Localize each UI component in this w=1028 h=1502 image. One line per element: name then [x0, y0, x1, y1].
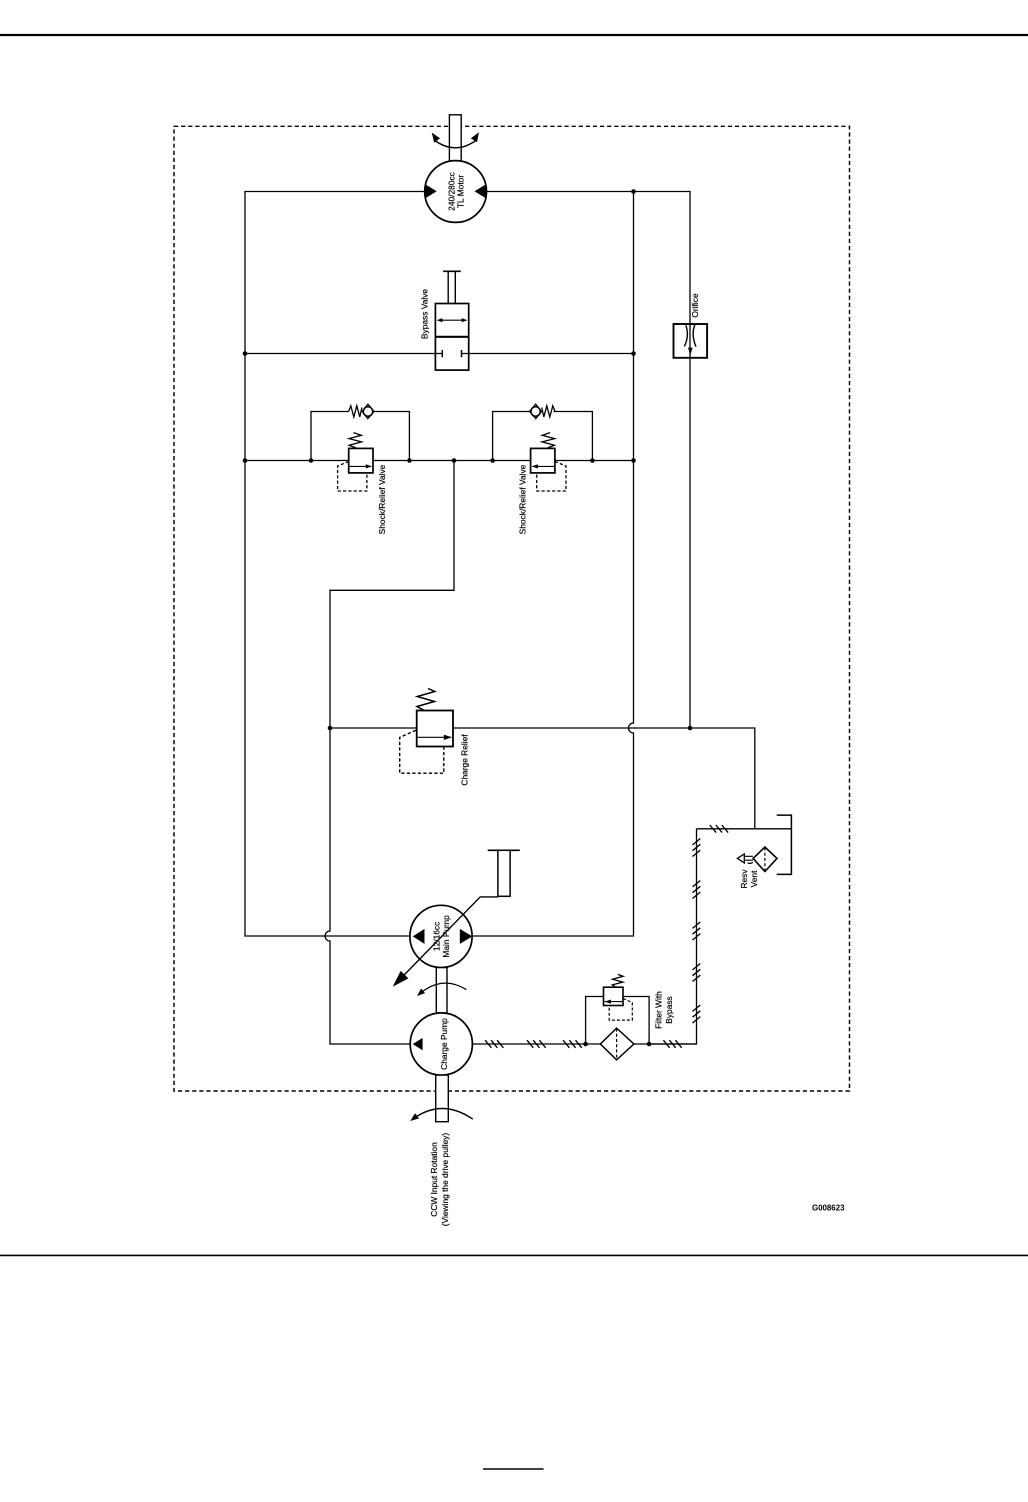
bypass valve V1 body — [435, 304, 468, 371]
pump shaft rotation arrowhead — [417, 989, 425, 997]
dashed system boundary box — [174, 126, 850, 1091]
bypass valve V1 blocked port stubs and ticks — [435, 353, 468, 355]
motor M1 left port flow triangle — [425, 184, 437, 198]
hose hash marks group 3 on charge outlet — [563, 1040, 582, 1048]
main pump P1 servo piston body — [498, 850, 510, 896]
main pump P1 label — [432, 915, 451, 958]
shock/relief valve RV1 flow arrow — [349, 465, 371, 467]
main pump P1 left port flow triangle — [413, 929, 425, 944]
shock/relief valve RV1 (left) check valve spring — [349, 406, 362, 417]
bypass valve V1 cell divider — [435, 336, 468, 338]
shock/relief valve RV2 body — [531, 448, 555, 473]
motor M1 rotation arrowhead left — [432, 133, 440, 143]
input shaft rotation arrow arc — [412, 1108, 473, 1119]
reservoir vent B1 filter diamond — [753, 847, 777, 872]
pump shaft rotation arrow arc — [419, 983, 467, 994]
reservoir vent B1 breather triangle — [737, 854, 744, 863]
wire: shock/relief line y=460.5 — [245, 460, 634, 462]
input rotation label — [429, 1133, 450, 1227]
page bottom rule — [0, 1254, 1028, 1256]
wire: right shock valve bypass loop — [493, 412, 593, 461]
reservoir vent B1 label — [739, 869, 759, 889]
main pump P1 servo piston cap — [488, 849, 520, 851]
svg-text:Charge Relief: Charge Relief — [459, 734, 469, 786]
filter bypass relief valve RV4 pilot dashed line — [609, 999, 632, 1021]
svg-text:(Viewing the drive pulley): (Viewing the drive pulley) — [440, 1133, 450, 1227]
motor M1 rotation arrow arc — [434, 139, 478, 147]
svg-text:Orifice: Orifice — [690, 293, 700, 318]
shock/relief valve RV2 (right) check valve spring — [542, 406, 555, 417]
svg-text:Resv: Resv — [739, 869, 749, 889]
bypass valve V1 plunger cap — [443, 270, 461, 272]
svg-text:Charge Pump: Charge Pump — [439, 1018, 449, 1070]
wire: net B motor right port to orifice branch (x=690 riser) — [486, 192, 690, 729]
wire: net B branch x=633.5 riser with hop over charge-relief line — [472, 192, 633, 937]
bypass valve V1 open-position double arrow — [438, 319, 467, 321]
main pump P1 swash control arm — [399, 897, 498, 980]
shock/relief valve RV1 check valve seat diamond — [362, 404, 374, 418]
wire: center tap to charge circuit (x=330 riser with hop over pump line) — [325, 461, 454, 1045]
main pump P1 right port flow triangle — [460, 929, 473, 944]
junction dots — [243, 189, 693, 1046]
charge relief valve RV3 pilot dashed line — [400, 730, 444, 773]
hose hash marks on reservoir return line — [710, 825, 728, 833]
svg-text:Vent: Vent — [749, 870, 759, 887]
page top rule — [0, 34, 1028, 36]
wire: charge relief line y=728 and drop to reservoir return — [330, 728, 755, 829]
shock/relief valve RV2 flow arrow — [532, 465, 554, 467]
orifice O1 box — [674, 324, 708, 358]
svg-text:G008623: G008623 — [812, 1204, 845, 1213]
charge pump P2 body circle — [410, 1013, 472, 1075]
charge relief valve RV3 flow arrow — [418, 736, 452, 738]
filter F1 element dashed line — [616, 1029, 618, 1060]
shock/relief valve RV2 check valve ball — [531, 407, 540, 416]
hose hash marks group 4 after filter — [663, 1040, 681, 1048]
shock/relief valve RV2 check valve seat diamond — [530, 404, 542, 418]
pump drive shaft between P1 and P2 — [436, 968, 447, 1013]
input shaft rotation arrowhead — [410, 1113, 419, 1121]
orifice O1 flow arrowhead — [688, 348, 693, 356]
shock/relief valve RV1 body — [349, 448, 373, 473]
hydraulic motor M1 240/280cc TL Motor: shaft — [449, 115, 461, 161]
svg-text:Shock/Relief Valve: Shock/Relief Valve — [377, 464, 387, 534]
reservoir vent B1 element dashed line — [764, 848, 766, 871]
footer short rule — [483, 1468, 544, 1470]
wire: suction riser x=696.5 to filter outlet — [649, 829, 696, 1044]
motor M1 rotation arrowhead right — [471, 132, 479, 142]
main pump P1 body circle — [410, 905, 472, 967]
wire: filter bypass loop — [586, 997, 650, 1045]
orifice O1 venturi curves — [684, 325, 696, 347]
wire: net A motor left port to main pump left port (x=245 riser) — [245, 192, 425, 937]
hose hash marks on suction riser (5 groups) — [693, 839, 701, 1024]
motor M1 right port flow triangle — [475, 184, 487, 198]
svg-text:Filter With: Filter With — [654, 991, 664, 1029]
svg-text:Bypass Valve: Bypass Valve — [420, 289, 430, 339]
reservoir vent B1 breather bars — [745, 856, 753, 863]
hose hash marks group 2 on charge outlet — [527, 1040, 546, 1048]
filter bypass relief valve RV4 flow arrow — [605, 1001, 623, 1003]
wire: charge pump outlet through filter junctions — [473, 1043, 697, 1045]
svg-text:Bypass: Bypass — [664, 996, 674, 1023]
svg-text:Main Pump: Main Pump — [441, 915, 451, 958]
filter F1 diamond — [600, 1028, 634, 1060]
bypass valve V1 plunger stem — [448, 271, 455, 303]
reservoir T1 tank bracket — [777, 815, 792, 874]
wire: reservoir return line y=828.8 into tank — [697, 828, 792, 830]
charge pump P2 outlet flow triangle — [413, 1038, 423, 1050]
motor M1 body circle — [425, 161, 487, 223]
svg-text:TL Motor: TL Motor — [456, 175, 466, 208]
hose hash marks group 1 on charge outlet — [485, 1040, 503, 1048]
filter label — [654, 991, 674, 1029]
filter bypass relief valve RV4 body — [604, 987, 624, 1005]
shock/relief valve RV1 relief spring — [349, 433, 362, 448]
motor M1 label — [446, 172, 465, 211]
charge relief valve RV3 spring — [417, 689, 435, 711]
wire: bypass valve line y=353.5 — [245, 353, 634, 355]
shock/relief valve RV2 relief spring — [542, 433, 555, 448]
main pump P1 swash arm arrowhead — [393, 971, 409, 987]
wire: left shock valve bypass loop — [311, 412, 409, 461]
shock/relief valve RV1 pilot dashed line — [338, 462, 367, 492]
shock/relief valve RV1 check valve ball — [363, 407, 372, 416]
svg-text:CCW Input Rotation: CCW Input Rotation — [429, 1142, 439, 1217]
filter bypass relief valve RV4 spring — [612, 974, 623, 987]
svg-text:Shock/Relief Valve: Shock/Relief Valve — [517, 464, 527, 534]
charge relief valve RV3 body — [417, 711, 453, 747]
shock/relief valve RV2 pilot dashed line — [537, 462, 566, 492]
charge pump P2 input shaft — [436, 1075, 449, 1122]
